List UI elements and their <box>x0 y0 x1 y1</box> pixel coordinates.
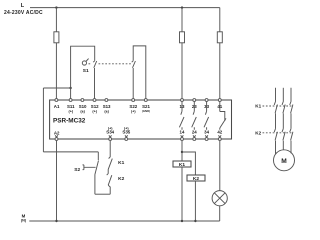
terminal S34 <box>109 138 112 141</box>
terminal A1 <box>55 99 58 102</box>
coil K2 <box>187 175 205 181</box>
wire terminal 14 down to coil K1 <box>181 141 183 161</box>
terminal 14 <box>181 138 184 141</box>
terminal 41 <box>218 99 221 102</box>
svg-text:24-230V AC/DC: 24-230V AC/DC <box>4 10 43 16</box>
svg-text:K1: K1 <box>118 160 124 166</box>
motor M <box>274 150 295 171</box>
contactor K2 main contact phase 2 <box>282 129 285 150</box>
e-stop contact S1 channel 1 <box>93 61 97 68</box>
node junction dot K2 on neutral bus <box>194 220 196 222</box>
svg-text:PSR-MC32: PSR-MC32 <box>53 118 86 125</box>
svg-text:K2: K2 <box>118 176 124 182</box>
svg-text:(+): (+) <box>68 109 73 113</box>
contactor K2 main contact phase 3 <box>290 129 293 154</box>
relay NO output contact 23-24 <box>192 102 197 130</box>
contactor K1 main contact phase 2 <box>282 102 285 129</box>
relay box PSR-MC32 <box>50 100 232 139</box>
wire terminal 42 down to lamp <box>219 141 221 191</box>
terminal 13 <box>181 99 184 102</box>
svg-text:(±): (±) <box>80 109 85 113</box>
svg-text:24: 24 <box>192 130 197 135</box>
node junction dot K1 on neutral bus <box>181 220 183 222</box>
svg-text:14: 14 <box>180 130 185 135</box>
contactor K1 main contact phase 3 <box>290 102 293 129</box>
mechanical link dashes K2 contactor <box>263 132 293 134</box>
terminal S21 <box>144 99 147 102</box>
terminal S22 <box>132 99 135 102</box>
terminal 24 <box>193 138 196 141</box>
wire S1 channel-1 loop S11 up and over <box>71 46 95 98</box>
terminal 33 <box>205 99 208 102</box>
wire feedback chain to bottom link <box>108 185 110 194</box>
svg-text:(+): (+) <box>92 109 97 113</box>
wire terminal S34 down to feedback chain <box>109 141 111 157</box>
wire reset rail horizontal to S2 <box>43 151 98 153</box>
wire bus to fuse F2 <box>181 8 183 32</box>
wire bottom link of reset loop <box>95 193 110 195</box>
svg-text:(GND): (GND) <box>142 109 150 113</box>
terminal S11 <box>69 99 72 102</box>
wire lamp to neutral bus <box>219 206 221 221</box>
wire motor phase 1 <box>275 88 277 102</box>
node junction dot at S11 feed <box>69 87 71 89</box>
wire branch to coil K2 <box>182 152 195 175</box>
svg-text:S35: S35 <box>122 130 130 135</box>
svg-text:(N): (N) <box>21 219 27 223</box>
relay NO output contact 33-34 <box>204 102 209 130</box>
wire fuse F2 to terminal 13 <box>181 43 183 99</box>
wire contact ch1 to terminal S12 <box>94 68 96 99</box>
terminal S12 <box>93 99 96 102</box>
feedback contact K1 <box>108 157 112 169</box>
svg-text:S11: S11 <box>67 104 75 109</box>
wire neutral bus M(N) <box>29 220 219 222</box>
wire coil K2 to neutral bus <box>194 181 196 221</box>
wire bus to fuse F1 <box>55 8 57 32</box>
svg-text:K2: K2 <box>255 131 261 136</box>
svg-text:(+): (+) <box>131 109 136 113</box>
svg-text:A2: A2 <box>54 130 60 135</box>
wire fuse F3 to terminal 41 <box>219 43 221 99</box>
contactor K1 main contact phase 1 <box>274 102 277 129</box>
wire left reset rail vertical <box>42 88 44 152</box>
terminal A2 <box>55 138 58 141</box>
terminal 23 <box>193 99 196 102</box>
terminal 34 <box>205 138 208 141</box>
terminal S10 <box>81 99 84 102</box>
wire bus corner to fuse F3 <box>219 8 221 32</box>
svg-text:S1: S1 <box>83 68 89 74</box>
wire supply tap node horizontal <box>43 87 70 89</box>
node junction dot K2 branch <box>181 151 183 153</box>
terminal S35 <box>125 138 128 141</box>
e-stop contact S1 channel 2 <box>132 61 136 68</box>
svg-text:K2: K2 <box>193 176 199 182</box>
wire fuse F1 to terminal A1 <box>55 43 57 99</box>
mechanical link dashes K1 contactor <box>263 105 293 107</box>
svg-text:42: 42 <box>217 130 222 135</box>
svg-text:S34: S34 <box>106 130 114 135</box>
svg-text:S10: S10 <box>79 104 87 109</box>
svg-text:M: M <box>22 213 26 218</box>
svg-text:S22: S22 <box>129 104 137 109</box>
svg-text:(±): (±) <box>104 109 109 113</box>
wire motor phase 3 <box>290 88 292 102</box>
node junction dot A2 on neutral bus <box>55 220 57 222</box>
svg-text:S13: S13 <box>103 104 111 109</box>
wire motor phase 2 <box>282 88 284 102</box>
fuse F2 <box>180 32 185 43</box>
emergency stop actuator S1 <box>82 61 86 65</box>
feedback contact K2 <box>107 169 112 185</box>
contactor K2 main contact phase 1 <box>274 129 277 154</box>
svg-text:S2: S2 <box>74 167 80 173</box>
wire coil K1 to neutral bus <box>181 167 183 221</box>
indicator lamp <box>212 191 227 206</box>
mechanical link dashes S1 to contact ch1 <box>89 63 92 65</box>
svg-text:S12: S12 <box>91 104 99 109</box>
terminal S13 <box>105 99 108 102</box>
wire S1 channel-2 loop S22 S21 <box>133 46 146 99</box>
svg-text:A1: A1 <box>54 104 60 109</box>
svg-text:L: L <box>21 3 25 9</box>
reset button S2 <box>97 152 99 160</box>
fuse F3 <box>217 32 222 43</box>
node junction dot on bus at fuse drop <box>55 6 57 8</box>
wire L supply bus <box>30 7 220 9</box>
fuse F1 <box>54 32 59 43</box>
relay NO output contact 13-14 <box>179 102 184 130</box>
svg-text:34: 34 <box>204 130 209 135</box>
relay NC output contact 41-42 <box>220 102 226 130</box>
node junction dot on bus at terminal 13 drop <box>181 6 183 8</box>
svg-text:M: M <box>281 158 287 165</box>
wire S2 to bottom link <box>94 175 96 195</box>
terminal 42 <box>218 138 221 141</box>
coil K1 <box>173 161 191 167</box>
wire A2 down to neutral bus <box>56 141 58 221</box>
mechanical link dashes contact ch1 to contact ch2 <box>99 63 132 65</box>
svg-text:K1: K1 <box>255 104 261 109</box>
